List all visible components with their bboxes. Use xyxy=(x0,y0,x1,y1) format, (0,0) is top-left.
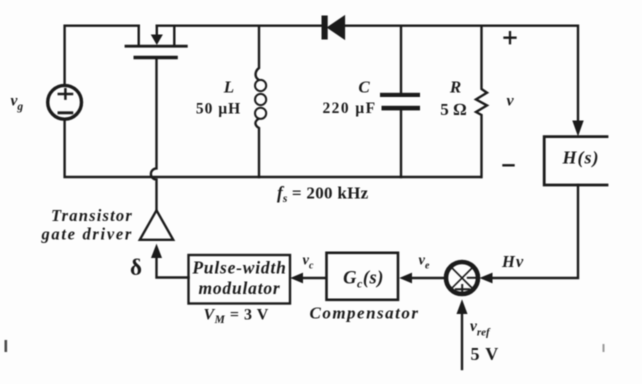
svg-text:gate driver: gate driver xyxy=(40,225,133,244)
gate driver A1 (triangle) xyxy=(140,210,173,240)
arrowhead into H(s) xyxy=(573,121,583,135)
capacitor C xyxy=(380,26,420,177)
voltage source Vg xyxy=(48,85,82,119)
summing junction xyxy=(446,262,478,294)
svg-text:Hv: Hv xyxy=(501,252,524,271)
svg-text:R: R xyxy=(449,78,461,97)
label C value 220 uF xyxy=(323,78,377,118)
wire summer to Gc with arrowhead xyxy=(412,277,445,279)
svg-text:v: v xyxy=(506,92,514,109)
transistor Q1 (MOSFET) xyxy=(126,26,186,58)
svg-text:δ: δ xyxy=(130,255,142,280)
svg-text:vref: vref xyxy=(470,318,491,339)
diode D1 xyxy=(322,16,345,40)
compensator block Gc(s) xyxy=(327,253,399,300)
bottom wire xyxy=(65,120,481,178)
reference input vref arrow xyxy=(461,313,463,369)
svg-text:50 µH: 50 µH xyxy=(196,101,241,118)
wire H(s) to summer with arrowhead xyxy=(492,185,578,278)
node plus output xyxy=(505,32,516,43)
svg-text:Gc(s): Gc(s) xyxy=(343,269,384,291)
inductor L xyxy=(255,26,266,177)
svg-text:5 V: 5 V xyxy=(471,344,500,364)
wire PWM to gate driver with arrowhead xyxy=(157,257,189,278)
resistor R xyxy=(476,26,487,177)
svg-text:ve: ve xyxy=(419,253,430,272)
svg-text:modulator: modulator xyxy=(198,278,280,298)
wire gate of Q1 to driver (with hop over bottom wire) xyxy=(151,59,157,210)
svg-text:VM = 3 V: VM = 3 V xyxy=(204,307,269,327)
svg-text:220 µF: 220 µF xyxy=(323,100,377,117)
label R value 5 ohm xyxy=(440,78,466,120)
wire Vg top to Q1 drain xyxy=(65,26,139,85)
sensor block H(s) xyxy=(544,137,607,185)
svg-text:Compensator: Compensator xyxy=(309,304,419,323)
svg-text:fs = 200 kHz: fs = 200 kHz xyxy=(277,183,369,206)
scan artifact right edge xyxy=(603,344,605,352)
svg-text:Pulse-width: Pulse-width xyxy=(191,258,286,278)
wire diode D1 to top right corner xyxy=(345,26,579,121)
svg-text:vg: vg xyxy=(11,93,24,114)
svg-text:5 Ω: 5 Ω xyxy=(440,100,466,119)
wire Gc to PWM with arrowhead xyxy=(303,277,327,279)
svg-text:H(s): H(s) xyxy=(562,148,600,169)
pulse-width modulator block xyxy=(189,255,291,304)
svg-text:C: C xyxy=(358,78,370,97)
scan artifact left edge xyxy=(5,340,8,352)
svg-text:L: L xyxy=(223,78,234,97)
svg-text:Transistor: Transistor xyxy=(51,206,133,225)
wire Q1 source to diode D1 anode xyxy=(157,25,322,27)
label transistor gate driver xyxy=(40,206,133,244)
node minus output xyxy=(504,164,514,166)
svg-text:vc: vc xyxy=(303,253,314,272)
label L value 50 uH xyxy=(196,78,241,118)
